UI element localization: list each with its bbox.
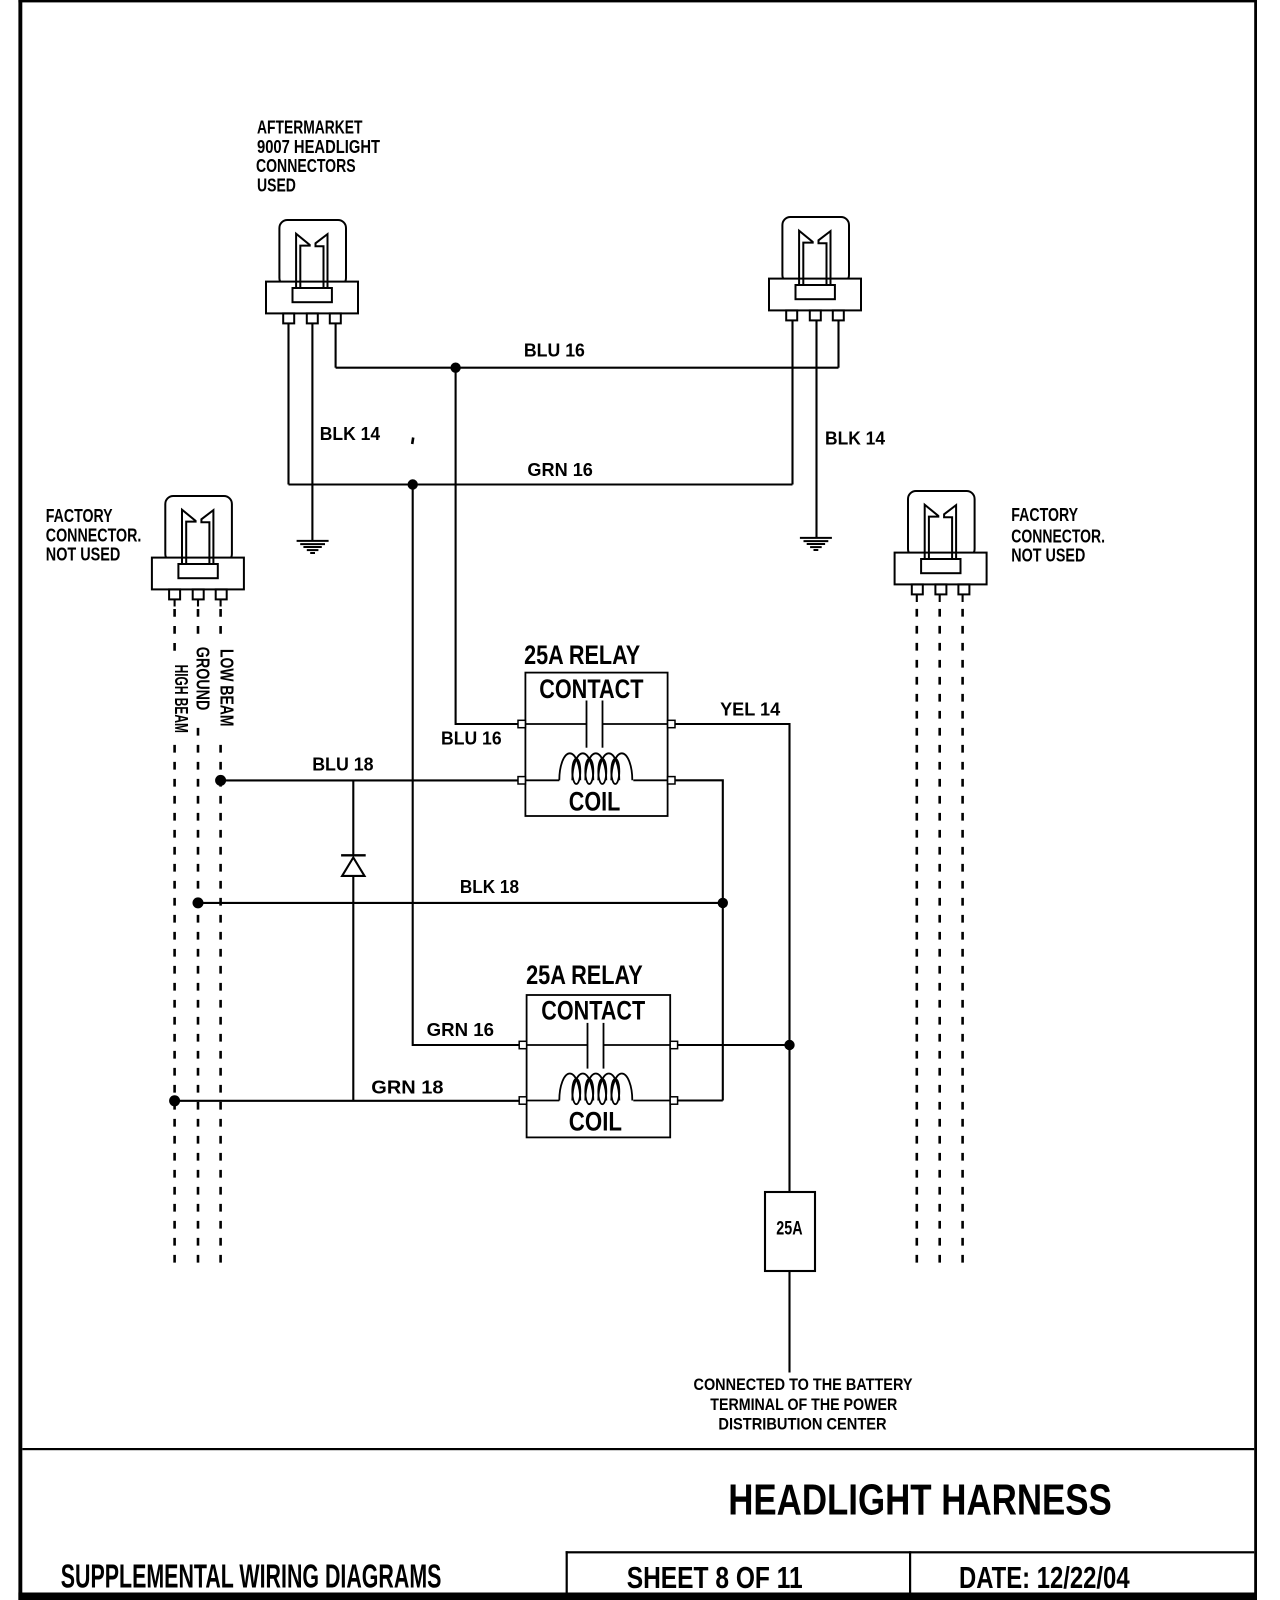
wire BLK 14 from P1 pin2 to ground (311, 324, 313, 540)
junction YEL 14 at K2 contact (784, 1040, 794, 1050)
wire GRN 16 from P1 pin1 down (287, 324, 289, 485)
svg-text:GRN 18: GRN 18 (371, 1078, 443, 1098)
wire GRN 18 (175, 1100, 520, 1102)
svg-text:25A: 25A (776, 1218, 803, 1239)
svg-text:HEADLIGHT HARNESS: HEADLIGHT HARNESS (728, 1477, 1112, 1525)
svg-text:GRN 16: GRN 16 (427, 1020, 494, 1040)
wire BLK 18 (198, 902, 723, 904)
svg-text:BLU 18: BLU 18 (312, 755, 373, 775)
wire GRN 16 from P2 pin1 down (791, 321, 793, 485)
svg-text:DATE: 12/22/04: DATE: 12/22/04 (959, 1560, 1130, 1595)
junction BLK 18 right (718, 898, 728, 908)
wire BLK 14 from P2 pin2 to ground (815, 321, 817, 537)
svg-text:COIL: COIL (569, 787, 621, 817)
connector P2 aftermarket 9007 right (769, 217, 861, 320)
wire BLU 16 horizontal (336, 367, 839, 369)
stray tick mark (412, 438, 413, 445)
wire stubs J2 pins (917, 595, 963, 602)
ground symbol left (297, 541, 329, 553)
wire K2 coil right joins (678, 1099, 723, 1101)
wire stubs J1 pins (175, 600, 221, 607)
connector J2 factory right (not used) (895, 491, 987, 594)
wire BLU 16 from P2 pin3 down (837, 321, 839, 368)
wire GRN 16 tap down to relay K2 (413, 485, 519, 1046)
junction BLU 18 at low beam (215, 775, 226, 786)
svg-text:BLK 18: BLK 18 (460, 877, 519, 897)
junction BLU 16 tap (450, 363, 460, 373)
svg-text:9007 HEADLIGHT: 9007 HEADLIGHT (257, 137, 380, 157)
wire dashed ground (197, 609, 200, 634)
wire BLU 16 tap down to relay K1 (456, 368, 518, 724)
wire K2 contact right to YEL 14 (678, 1044, 790, 1046)
svg-text:25A RELAY: 25A RELAY (524, 640, 640, 670)
svg-text:NOT USED: NOT USED (46, 544, 121, 564)
note factory connector not used right (1011, 505, 1105, 565)
svg-text:CONTACT: CONTACT (541, 995, 645, 1025)
svg-text:GROUND: GROUND (193, 647, 213, 711)
relay K1 25A RELAY (518, 673, 675, 816)
svg-text:CONTACT: CONTACT (539, 674, 644, 704)
svg-text:CONNECTOR.: CONNECTOR. (46, 525, 142, 545)
svg-text:YEL 14: YEL 14 (720, 699, 780, 719)
svg-text:DISTRIBUTION CENTER: DISTRIBUTION CENTER (718, 1416, 886, 1434)
svg-text:HIGH BEAM: HIGH BEAM (171, 665, 191, 733)
wire dashed high beam (173, 609, 176, 651)
svg-text:SUPPLEMENTAL WIRING DIAGRAMS: SUPPLEMENTAL WIRING DIAGRAMS (61, 1558, 442, 1595)
note aftermarket 9007 headlight connectors used (256, 118, 380, 196)
wire BLU 18 (221, 779, 518, 781)
svg-text:BLU 16: BLU 16 (441, 728, 502, 748)
svg-text:SHEET 8 OF 11: SHEET 8 OF 11 (627, 1560, 803, 1595)
svg-text:AFTERMARKET: AFTERMARKET (257, 118, 363, 138)
svg-text:CONNECTED TO THE BATTERY: CONNECTED TO THE BATTERY (694, 1376, 913, 1394)
ground symbol right (800, 538, 832, 550)
wire BLU 16 from P1 pin3 down (335, 324, 337, 368)
connector J1 factory left (not used) (152, 496, 244, 599)
svg-text:FACTORY: FACTORY (46, 506, 113, 526)
svg-text:BLK 14: BLK 14 (825, 428, 885, 448)
junction GRN 18 at high beam (169, 1095, 180, 1106)
svg-text:FACTORY: FACTORY (1011, 505, 1078, 525)
wire dashed J2 pin2 (938, 609, 941, 1263)
svg-text:LOW BEAM: LOW BEAM (216, 649, 236, 727)
wire dashed J2 pin1 (915, 609, 918, 1263)
svg-text:GRN 16: GRN 16 (527, 460, 593, 480)
wire K1 coil right to BLK 18 (675, 780, 723, 1100)
junction BLK 18 at ground line (193, 897, 204, 908)
fuse F1 25A (765, 1192, 815, 1271)
svg-text:CONNECTORS: CONNECTORS (256, 156, 356, 176)
svg-text:CONNECTOR.: CONNECTOR. (1011, 527, 1105, 547)
svg-text:COIL: COIL (569, 1107, 622, 1137)
junction GRN 16 tap (408, 479, 418, 489)
wire fuse to battery (788, 1271, 790, 1373)
svg-text:BLK 14: BLK 14 (320, 424, 380, 444)
svg-text:NOT USED: NOT USED (1011, 546, 1085, 566)
diode D1 (341, 781, 366, 1101)
svg-text:TERMINAL OF THE POWER: TERMINAL OF THE POWER (710, 1396, 897, 1414)
wire YEL 14 from K1 contact right (675, 724, 790, 1192)
wire dashed J2 pin3 (961, 609, 964, 1263)
svg-text:25A RELAY: 25A RELAY (526, 960, 643, 990)
note connected to battery (694, 1376, 913, 1434)
wire GRN 16 horizontal (289, 483, 793, 485)
relay K2 25A RELAY (519, 995, 677, 1137)
note factory connector not used left (46, 506, 142, 564)
connector P1 aftermarket 9007 left (266, 220, 358, 323)
svg-text:USED: USED (257, 176, 296, 196)
wire dashed low beam (219, 609, 222, 634)
svg-text:BLU 16: BLU 16 (524, 341, 585, 361)
